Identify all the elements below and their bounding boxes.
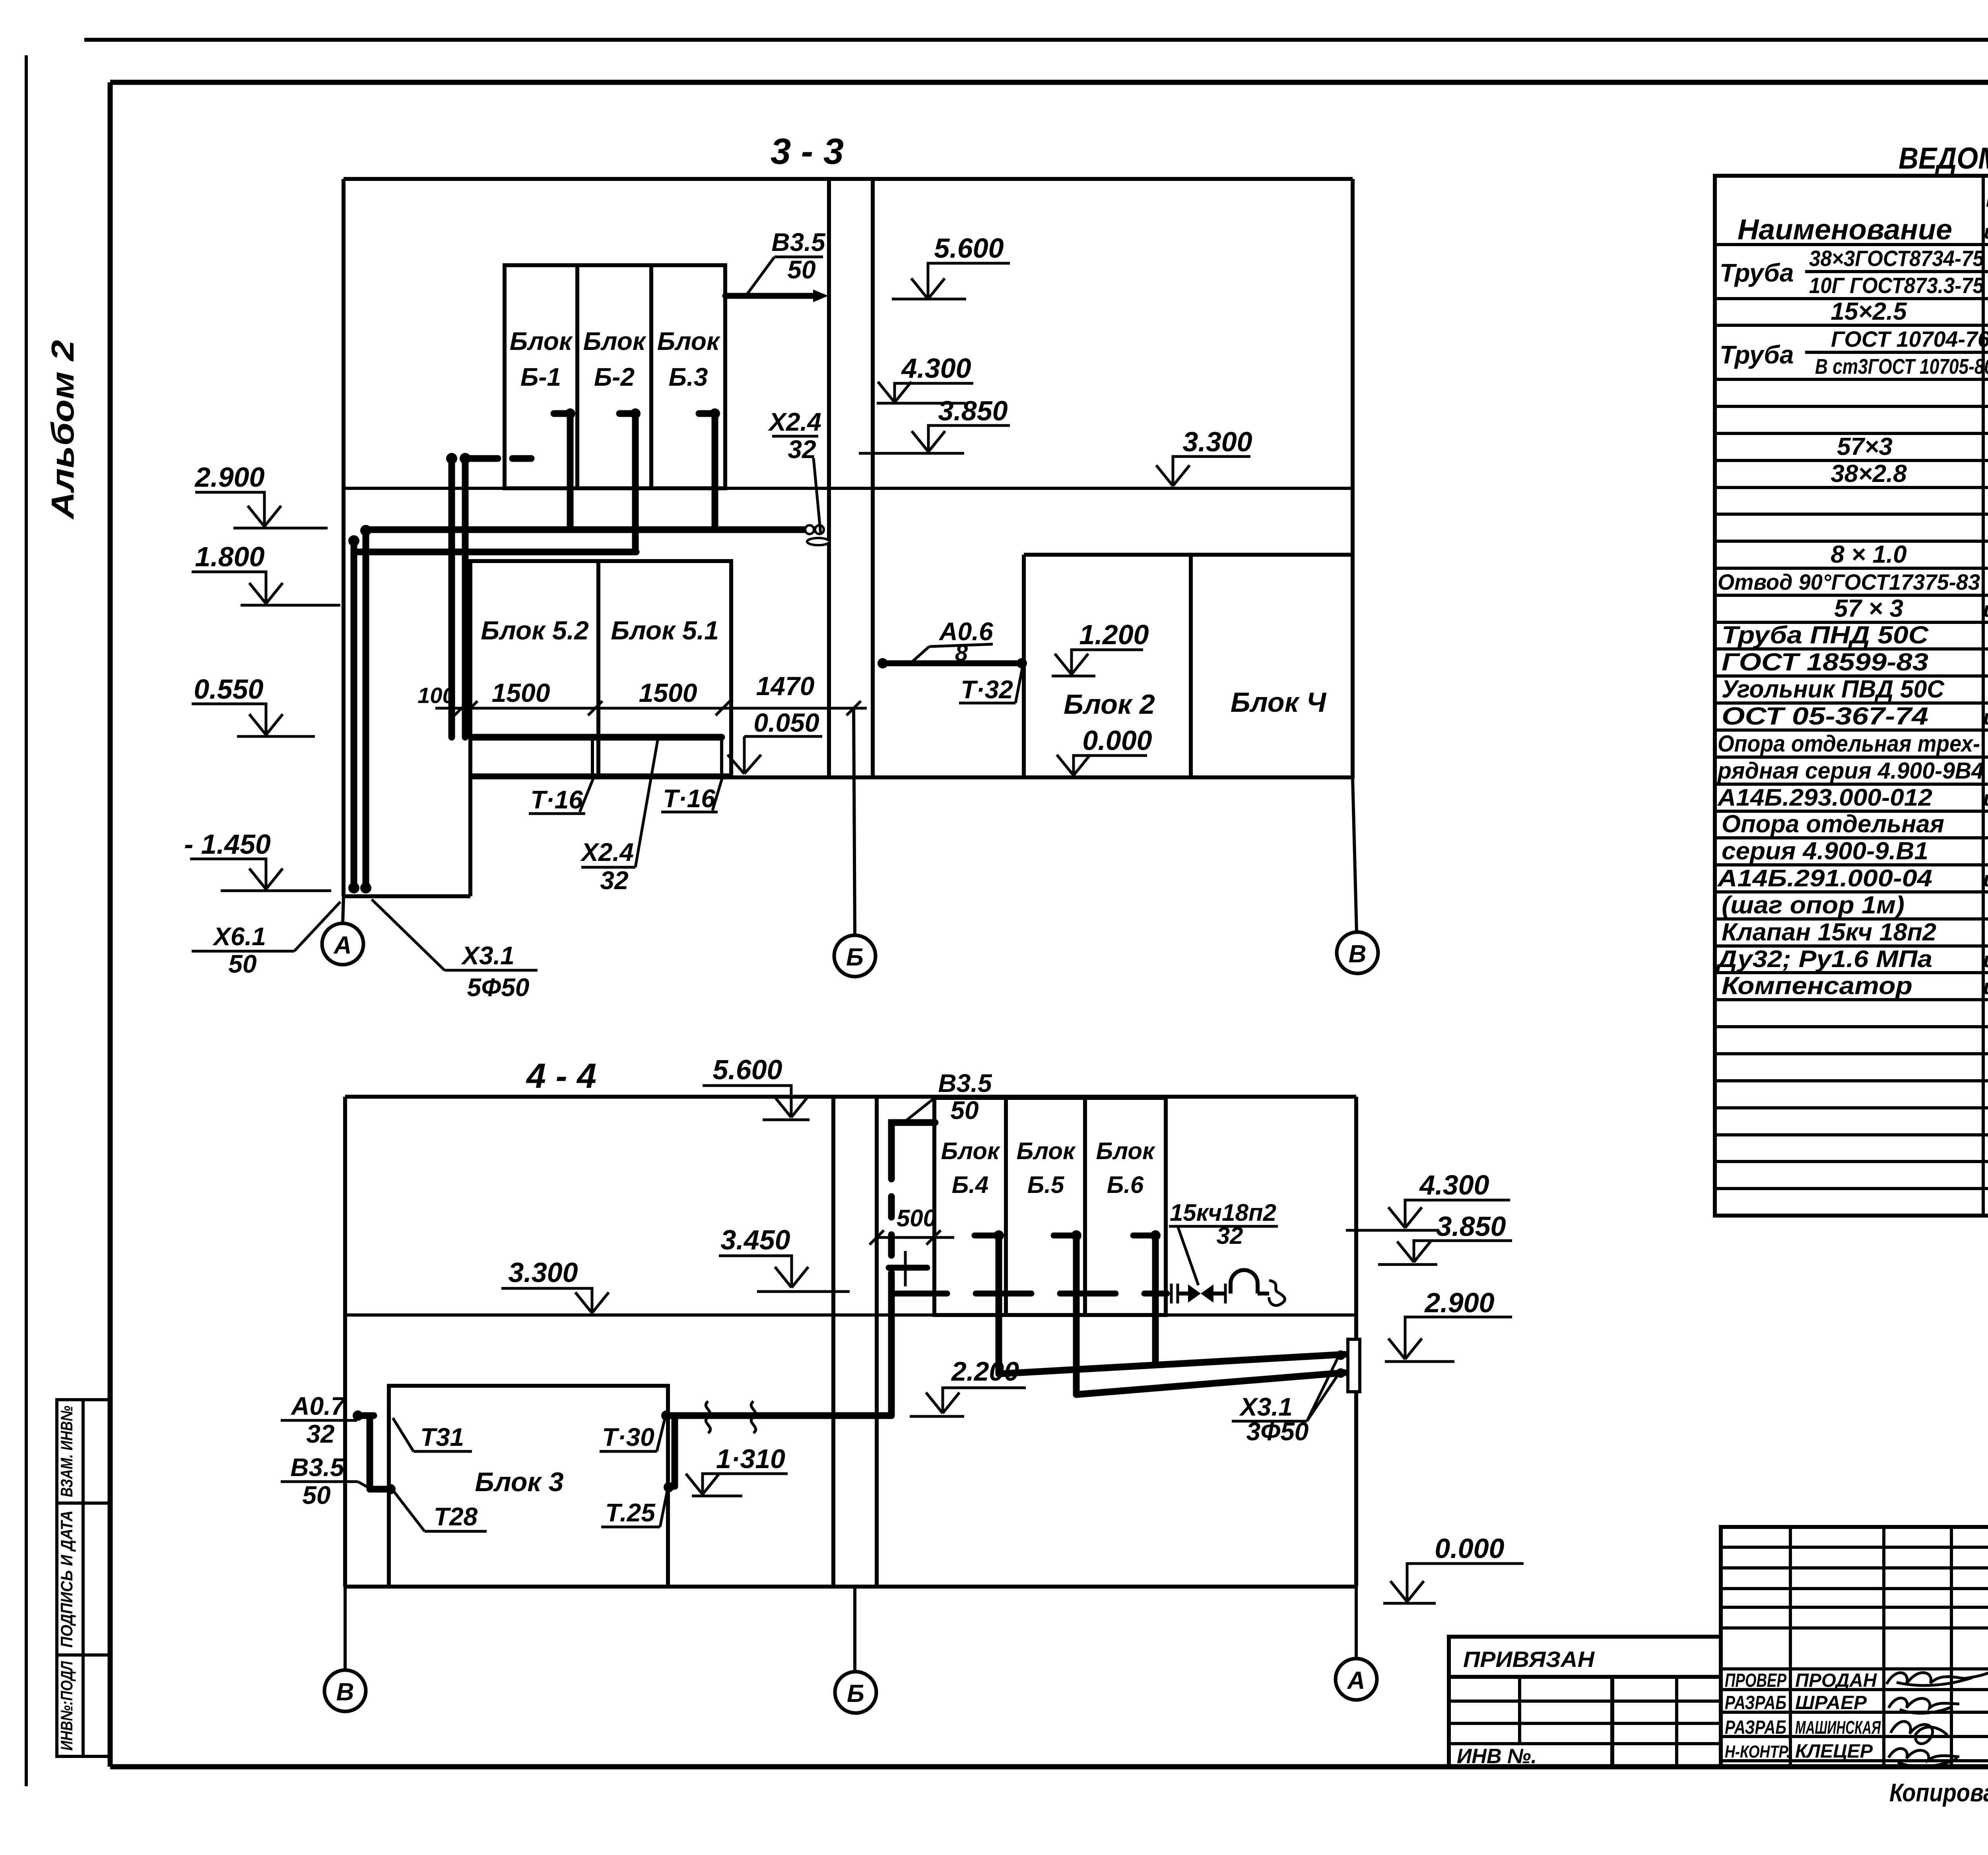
pipe А0.6 xyxy=(878,658,1027,668)
pipe X2.4 horizontal at block 5 xyxy=(472,734,722,741)
svg-text:А14Б.293.000-012: А14Б.293.000-012 xyxy=(1717,784,1932,811)
svg-text:3.850: 3.850 xyxy=(1436,1211,1506,1242)
node axis Б circle of 4-4 xyxy=(835,1587,876,1713)
svg-text:15кч18п2: 15кч18п2 xyxy=(1170,1199,1276,1226)
valve 15кч18п2 with compensator xyxy=(1171,1270,1285,1305)
svg-text:Блок 3: Блок 3 xyxy=(475,1467,563,1497)
svg-text:500: 500 xyxy=(897,1205,936,1231)
svg-text:3.450: 3.450 xyxy=(720,1224,790,1255)
signatures xyxy=(1887,1671,1988,1767)
svg-text:Блок 2: Блок 2 xyxy=(1064,689,1155,720)
svg-text:50: 50 xyxy=(302,1481,330,1509)
node axis A circle of 3-3 xyxy=(322,896,363,965)
wire outer left margin line xyxy=(25,55,28,1786)
pipe of block Б.4 xyxy=(975,1230,1004,1374)
label 15кч18п2/32 xyxy=(1169,1199,1278,1285)
pipe run lower to outlet xyxy=(1076,1373,1345,1395)
elevation 0.000 right xyxy=(1383,1533,1524,1603)
svg-text:Т·32: Т·32 xyxy=(961,675,1013,704)
svg-text:4 - 4: 4 - 4 xyxy=(526,1056,596,1096)
svg-text:ВЗАМ. ИНВ№: ВЗАМ. ИНВ№ xyxy=(57,1406,76,1497)
label А0.6/8 xyxy=(911,617,993,666)
svg-text:шт: шт xyxy=(1983,598,1988,622)
svg-text:1470: 1470 xyxy=(756,671,815,701)
svg-text:Б: Б xyxy=(846,944,864,971)
pipe inlet left of block 3 xyxy=(353,1410,396,1494)
title block xyxy=(1721,1527,1988,1767)
svg-text:А: А xyxy=(333,932,352,959)
ceiling line 3.300 of section 4-4 xyxy=(345,1313,1356,1317)
elevation 3.300 of 4-4 xyxy=(501,1257,609,1313)
svg-text:шт: шт xyxy=(1983,867,1988,891)
svg-text:2.900: 2.900 xyxy=(1424,1287,1494,1318)
svg-text:2.900: 2.900 xyxy=(194,462,264,493)
dimension line 100 1500 1500 1470 xyxy=(417,671,867,715)
svg-text:Опора отдельная: Опора отдельная xyxy=(1722,810,1944,838)
svg-text:1500: 1500 xyxy=(492,678,550,707)
svg-text:0.050: 0.050 xyxy=(753,708,819,737)
svg-text:5.600: 5.600 xyxy=(712,1054,782,1085)
svg-text:Б-2: Б-2 xyxy=(594,363,635,391)
svg-text:МАШИНСКАЯ: МАШИНСКАЯ xyxy=(1795,1717,1881,1738)
svg-text:Угольник ПВД 50С: Угольник ПВД 50С xyxy=(1722,676,1945,703)
svg-text:Х3.1: Х3.1 xyxy=(461,941,514,970)
label В3.5/50 riser xyxy=(904,1069,996,1125)
elevation 4.300 right xyxy=(1346,1169,1510,1230)
wire top border line xyxy=(84,38,1988,42)
label Х3.1/3Ф50 xyxy=(1232,1357,1338,1446)
elevation -1.450 left xyxy=(184,829,331,891)
svg-text:А0.7: А0.7 xyxy=(290,1392,346,1420)
pipe supports under block 5 xyxy=(592,739,722,775)
label title block names xyxy=(1725,1670,1881,1762)
block 3 cabinet xyxy=(389,1386,668,1587)
svg-text:Б.4: Б.4 xyxy=(952,1171,989,1198)
floor line of section 4-4 xyxy=(345,1585,1356,1589)
wall top of section 4-4 xyxy=(345,1095,1356,1099)
elevation 5.600 of 4-4 xyxy=(703,1054,810,1120)
dimension 500 xyxy=(870,1205,954,1286)
svg-text:4.300: 4.300 xyxy=(1419,1169,1489,1200)
label А0.7/32 margin xyxy=(281,1392,357,1448)
svg-text:Блок: Блок xyxy=(583,327,647,355)
svg-text:Б.3: Б.3 xyxy=(669,363,708,391)
svg-text:Блок: Блок xyxy=(941,1138,1000,1164)
section 4-4 title xyxy=(526,1056,596,1096)
svg-text:3.300: 3.300 xyxy=(1182,426,1252,457)
svg-text:Т31: Т31 xyxy=(420,1423,464,1451)
svg-text:Т·16: Т·16 xyxy=(530,785,583,814)
svg-text:ГОСТ 18599-83: ГОСТ 18599-83 xyxy=(1722,649,1928,676)
svg-text:шт: шт xyxy=(1983,948,1988,972)
svg-text:Н-КОНТР.: Н-КОНТР. xyxy=(1725,1742,1790,1762)
svg-text:В: В xyxy=(1349,940,1367,968)
svg-text:шт: шт xyxy=(1983,705,1988,729)
svg-text:38×3ГОСТ8734-75: 38×3ГОСТ8734-75 xyxy=(1809,246,1984,271)
svg-text:Б.5: Б.5 xyxy=(1027,1171,1065,1198)
wall left A of section 3-3 xyxy=(342,179,346,896)
svg-text:5Ф50: 5Ф50 xyxy=(467,973,530,1002)
block 5.2 5.1 cabinets xyxy=(470,561,731,775)
svg-text:1·310: 1·310 xyxy=(716,1444,785,1474)
svg-text:57 × 3: 57 × 3 xyxy=(1834,595,1903,622)
svg-text:Блок: Блок xyxy=(510,327,573,355)
svg-text:Компенсатор: Компенсатор xyxy=(1722,972,1912,1000)
svg-text:Блок 5.1: Блок 5.1 xyxy=(611,616,719,645)
svg-text:РАЗРАБ: РАЗРАБ xyxy=(1725,1717,1786,1738)
svg-text:32: 32 xyxy=(1217,1222,1243,1249)
svg-text:РАЗРАБ: РАЗРАБ xyxy=(1725,1692,1786,1713)
svg-text:Опора отдельная трех-: Опора отдельная трех- xyxy=(1718,731,1980,757)
node axis В circle of 4-4 xyxy=(324,1587,366,1711)
block Б-1 Б-2 Б-3 cabinets xyxy=(505,265,725,488)
pipe of block Б-3 xyxy=(699,408,720,530)
elevation 1.800 left xyxy=(192,541,340,605)
table Ведомость трубопроводов xyxy=(1715,142,1988,1216)
svg-text:шт: шт xyxy=(1983,975,1988,999)
elevation 1.310 xyxy=(686,1444,788,1496)
svg-text:В3.5: В3.5 xyxy=(290,1453,345,1482)
svg-text:0.550: 0.550 xyxy=(194,674,263,705)
label Т31 xyxy=(393,1418,472,1451)
label Х2.4/32 mid xyxy=(768,408,821,534)
svg-text:ПРОДАН: ПРОДАН xyxy=(1795,1670,1877,1691)
pipe run upper to outlet xyxy=(999,1354,1345,1374)
ceiling line 3.300 of section 3-3 xyxy=(344,487,1353,490)
svg-text:ПОДПИСЬ И ДАТА: ПОДПИСЬ И ДАТА xyxy=(57,1511,76,1648)
pipe run second xyxy=(354,549,636,556)
svg-text:ШРАЕР: ШРАЕР xyxy=(1795,1692,1867,1713)
svg-text:В: В xyxy=(336,1678,354,1706)
svg-text:серия 4.900-9.В1: серия 4.900-9.В1 xyxy=(1722,837,1928,865)
svg-text:изм: изм xyxy=(1984,221,1988,243)
svg-text:1500: 1500 xyxy=(639,678,697,707)
elevation 3.850 of 3-3 xyxy=(859,395,1010,453)
pipe of block Б-2 xyxy=(619,408,641,552)
svg-text:3 - 3: 3 - 3 xyxy=(771,131,844,172)
svg-text:32: 32 xyxy=(600,866,628,895)
svg-text:Копировал: Коршунова: Копировал: Коршунова xyxy=(1889,1778,1988,1807)
label Х6.1/50 xyxy=(192,902,340,978)
pipe hidden run behind blocks xyxy=(891,1291,1167,1297)
svg-text:8 × 1.0: 8 × 1.0 xyxy=(1831,541,1906,568)
svg-text:Блок: Блок xyxy=(1017,1138,1076,1164)
section 3-3 title xyxy=(771,131,844,172)
svg-text:Т28: Т28 xyxy=(434,1502,478,1531)
svg-text:КЛЕЦЕР: КЛЕЦЕР xyxy=(1795,1741,1873,1762)
svg-text:(шаг опор 1м): (шаг опор 1м) xyxy=(1722,892,1905,919)
svg-text:ВЕДОМОСТЬ ТРУБОПРОВОДОВ: ВЕДОМОСТЬ ТРУБОПРОВОДОВ xyxy=(1899,142,1988,175)
elevation 0.000 of 3-3 xyxy=(1057,725,1152,775)
elevation 3.850 right xyxy=(1378,1211,1512,1265)
svg-text:А: А xyxy=(1347,1667,1365,1694)
elevation 0.550 left xyxy=(192,674,315,736)
svg-text:ОСТ 05-367-74: ОСТ 05-367-74 xyxy=(1722,703,1928,730)
label Х2.4/32 bottom xyxy=(580,740,658,895)
pipe outlet right of block 3 xyxy=(664,1416,675,1492)
label Копировал xyxy=(1889,1777,1988,1811)
svg-text:50: 50 xyxy=(950,1096,978,1125)
block Б.4 Б.5 Б.6 cabinets xyxy=(934,1098,1166,1315)
wall top of section 3-3 xyxy=(344,177,1353,181)
label Альбом 2 xyxy=(45,340,80,520)
svg-text:2.200: 2.200 xyxy=(951,1356,1019,1387)
svg-text:А14Б.291.000-04: А14Б.291.000-04 xyxy=(1717,865,1932,892)
svg-text:8: 8 xyxy=(955,640,968,666)
svg-text:4.300: 4.300 xyxy=(901,353,971,384)
svg-text:Х6.1: Х6.1 xyxy=(212,922,266,951)
label Т28 xyxy=(394,1491,487,1531)
pipe run X2.4 upper xyxy=(366,525,829,545)
elevation 1.200 xyxy=(1052,619,1149,676)
elevation 2.200 xyxy=(910,1356,1026,1416)
svg-text:Блок: Блок xyxy=(1096,1138,1155,1164)
привязан table xyxy=(1449,1637,1721,1768)
svg-text:Труба: Труба xyxy=(1720,340,1794,369)
svg-text:1.200: 1.200 xyxy=(1079,619,1149,650)
svg-text:Отвод 90°ГОСТ17375-83: Отвод 90°ГОСТ17375-83 xyxy=(1718,569,1980,594)
elevation 0.050 xyxy=(728,708,822,774)
block 2 and block 4 xyxy=(1024,555,1353,777)
svg-text:3.850: 3.850 xyxy=(938,395,1008,426)
label В3.5/50 top xyxy=(747,228,826,295)
svg-text:Т·16: Т·16 xyxy=(663,784,715,813)
elevation 3.300 of 3-3 xyxy=(1156,426,1252,486)
svg-text:Блок Ч: Блок Ч xyxy=(1231,687,1327,718)
svg-text:Альбом 2: Альбом 2 xyxy=(45,340,80,520)
svg-text:ПРИВЯЗАН: ПРИВЯЗАН xyxy=(1463,1647,1595,1672)
svg-text:32: 32 xyxy=(788,435,816,464)
wall axis Б of section 4-4 xyxy=(833,1097,877,1587)
svg-text:В3.5: В3.5 xyxy=(938,1069,992,1097)
svg-text:50: 50 xyxy=(787,255,815,284)
svg-text:- 1.450: - 1.450 xyxy=(184,829,271,860)
wall left В of section 4-4 xyxy=(343,1097,347,1587)
svg-text:ИНВ №.: ИНВ №. xyxy=(1457,1745,1537,1768)
svg-text:32: 32 xyxy=(306,1420,334,1448)
label В3.5/50 margin xyxy=(281,1453,371,1509)
svg-text:Б: Б xyxy=(847,1680,864,1707)
svg-text:шт: шт xyxy=(1983,787,1988,810)
pipe of block Б.6 xyxy=(1133,1230,1161,1365)
outlet plate Х3.1 xyxy=(1336,1339,1360,1392)
svg-text:3.300: 3.300 xyxy=(508,1257,578,1288)
svg-text:Клапан 15кч 18п2: Клапан 15кч 18п2 xyxy=(1722,919,1936,946)
elevation 3.450 xyxy=(719,1224,850,1292)
svg-text:10Г ГОСТ873.3-75: 10Г ГОСТ873.3-75 xyxy=(1809,273,1984,298)
svg-text:В3.5: В3.5 xyxy=(771,228,826,256)
elevation 5.600 of 3-3 xyxy=(892,233,1010,299)
svg-text:15×2.5: 15×2.5 xyxy=(1831,298,1907,325)
pit at axis A xyxy=(344,777,470,896)
svg-text:Т.25: Т.25 xyxy=(605,1498,656,1527)
elevation 4.300 of 3-3 xyxy=(877,353,973,403)
label Т.16 left xyxy=(529,779,593,814)
svg-text:Труба: Труба xyxy=(1720,258,1794,287)
svg-text:Ед.: Ед. xyxy=(1986,189,1988,211)
pipe of block Б.5 xyxy=(1054,1230,1081,1395)
svg-text:ИНВ№:ПОДЛ: ИНВ№:ПОДЛ xyxy=(57,1661,76,1751)
svg-text:ГОСТ 10704-76: ГОСТ 10704-76 xyxy=(1831,326,1988,352)
svg-text:ПРОВЕР: ПРОВЕР xyxy=(1725,1670,1787,1691)
svg-text:Труба ПНД 50С: Труба ПНД 50С xyxy=(1722,622,1929,649)
svg-text:Блок: Блок xyxy=(657,327,721,355)
elevation 2.900 right xyxy=(1385,1287,1512,1362)
svg-text:38×2.8: 38×2.8 xyxy=(1831,460,1907,488)
label Т.25 xyxy=(601,1491,667,1527)
pipe break marks xyxy=(706,1401,756,1433)
svg-text:Х2.4: Х2.4 xyxy=(580,838,634,866)
floor line 0.000 of section 3-3 xyxy=(470,775,1353,779)
svg-text:Наименование: Наименование xyxy=(1738,214,1952,246)
svg-text:50: 50 xyxy=(228,950,256,978)
wall right А of section 4-4 xyxy=(1354,1097,1358,1587)
svg-text:Блок 5.2: Блок 5.2 xyxy=(481,616,589,645)
pipe pair down to block 5 xyxy=(446,453,531,737)
pipe В3.5 to wall xyxy=(725,289,828,302)
svg-text:Ду32; Ру1.6 МПа: Ду32; Ру1.6 МПа xyxy=(1715,946,1932,972)
left margin stamp strip xyxy=(57,1400,110,1756)
svg-text:0.000: 0.000 xyxy=(1435,1533,1504,1564)
svg-text:0.000: 0.000 xyxy=(1082,725,1152,756)
label Т.32 xyxy=(959,666,1023,704)
svg-text:1.800: 1.800 xyxy=(195,541,264,572)
svg-text:57×3: 57×3 xyxy=(1837,433,1893,460)
pipe main run 2.200 xyxy=(661,1410,891,1421)
svg-text:3Ф50: 3Ф50 xyxy=(1246,1417,1309,1446)
wall right B of section 3-3 xyxy=(1351,179,1355,779)
node axis А circle of 4-4 xyxy=(1336,1587,1377,1700)
svg-text:Б.6: Б.6 xyxy=(1107,1171,1144,1198)
node axis В circle of 3-3 xyxy=(1337,779,1378,973)
elevation 2.900 left xyxy=(194,462,328,528)
svg-text:В ст3ГОСТ 10705-80: В ст3ГОСТ 10705-80 xyxy=(1815,355,1988,379)
label Т.16 right xyxy=(661,779,722,813)
svg-text:5.600: 5.600 xyxy=(934,233,1004,264)
svg-text:Х2.4: Х2.4 xyxy=(768,408,821,436)
svg-text:Б-1: Б-1 xyxy=(520,363,561,391)
pipe risers at wall A xyxy=(348,525,371,894)
label Т.30 xyxy=(600,1419,665,1451)
svg-text:Т·30: Т·30 xyxy=(602,1423,654,1451)
svg-text:рядная серия 4.900-9В4: рядная серия 4.900-9В4 xyxy=(1717,758,1984,784)
node axis Б circle of 3-3 xyxy=(834,708,876,977)
label Х3.1/5Ф50 xyxy=(372,899,538,1002)
pipe of block Б-1 xyxy=(554,408,575,530)
pipe riser В3.5 at axis Б xyxy=(891,1123,935,1416)
wall axis Б of section 3-3 xyxy=(829,179,873,779)
